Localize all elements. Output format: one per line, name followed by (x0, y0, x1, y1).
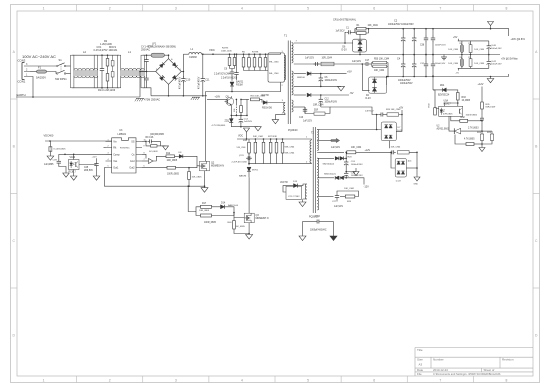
node aux m2 (236, 115, 238, 117)
wire capacitor C31b a (413, 55, 415, 63)
resistor snubber R7 (248, 58, 251, 68)
wire capacitor C5 b (402, 68, 404, 77)
svg-text:BAV2M: BAV2M (239, 174, 246, 177)
svg-text:2: 2 (109, 379, 111, 383)
wire capacitor C36 a (425, 29, 427, 37)
transistor Q5 (225, 98, 232, 105)
svg-text:14D431: 14D431 (109, 49, 118, 52)
node clamp2 R23 (270, 138, 272, 140)
resistor clamp2 R23 (269, 142, 272, 153)
capacitor C25 (94, 161, 98, 167)
wire clamp2 R25 t (282, 139, 284, 142)
wire d7 bottom (388, 141, 390, 149)
wire 5v flag tick (458, 39, 460, 41)
inductor LF1 (151, 53, 165, 57)
wire rc5 loop (305, 107, 314, 114)
transformer T2 sec3 (317, 158, 318, 178)
node R2b rail (368, 28, 370, 30)
resistor R2 (357, 32, 367, 35)
ground u5b (70, 176, 77, 180)
wire t2s pin11 (320, 129, 377, 131)
svg-text:D-2X: D-2X (396, 180, 402, 182)
wire CY1 top (146, 55, 148, 57)
wire C12 top (320, 95, 322, 97)
capacitor C14 (239, 117, 243, 123)
wire r40 dn (234, 229, 249, 234)
wire mid gnd (346, 168, 356, 172)
svg-text:B: B (13, 144, 16, 148)
T1 sec winding 2 (292, 71, 294, 95)
wire r16 d6 (260, 99, 263, 102)
svg-text:D: D (12, 333, 15, 337)
svg-text:4.7K,0805: 4.7K,0805 (464, 139, 475, 141)
wire t2 sec stubD (317, 196, 320, 198)
node r13 node (188, 167, 190, 169)
resistor clamp2 R22 (262, 142, 265, 153)
svg-text:L1: L1 (191, 48, 194, 51)
wire CY mid to earth (140, 72, 147, 98)
svg-text:C14: C14 (244, 118, 249, 120)
common-mode choke L2 (71, 55, 98, 88)
svg-text:10K_CM4: 10K_CM4 (368, 25, 379, 27)
capacitor C3 (401, 36, 405, 42)
resistor R24 R29 divider (480, 134, 493, 140)
node c40 mid (488, 54, 490, 56)
capacitor C13 (303, 107, 307, 113)
wire capacitor C37 b (425, 68, 427, 77)
wire tl431 k (449, 116, 454, 131)
transformer T2 sec4 (317, 179, 318, 197)
wire capacitor C31b b (413, 68, 415, 77)
wire ss gnd (160, 145, 165, 147)
node d2 out (386, 76, 388, 78)
resistor R50 R51 pair (372, 61, 389, 67)
wire ref2 (474, 143, 482, 145)
wire u5b gnd (73, 170, 75, 177)
wire aux right (246, 99, 248, 115)
svg-text:BZV55C24: BZV55C24 (438, 94, 450, 96)
wire low bus (387, 74, 509, 77)
svg-text:LM5021: LM5021 (118, 133, 127, 136)
node gnd flag (490, 28, 492, 30)
wire clamp R4 top (229, 54, 231, 57)
svg-text:51K: 51K (234, 108, 236, 112)
svg-text:CY3: CY3 (315, 215, 320, 218)
node vdc400 (49, 140, 51, 142)
transformer T1 aux winding (284, 103, 285, 113)
node clamp R5 (234, 53, 236, 55)
wire comp link (59, 153, 65, 155)
wire ss (142, 140, 146, 142)
svg-text:1000pF,400VAC: 1000pF,400VAC (310, 229, 327, 232)
node out1 turn (187, 185, 189, 187)
wire d14 out (225, 207, 234, 213)
node d6 bus (359, 54, 361, 56)
svg-text:100R_0805: 100R_0805 (167, 174, 180, 176)
svg-text:D14: D14 (221, 202, 226, 204)
wire 5v low tick (458, 68, 460, 70)
wire bridge AC top (168, 55, 170, 59)
svg-text:+16V: +16V (215, 96, 221, 99)
svg-text:+12V: +12V (92, 157, 98, 159)
node q3 src (248, 233, 250, 235)
resistor R22 (321, 62, 334, 66)
svg-text:A: A (13, 50, 16, 54)
capacitor C34 (379, 113, 385, 117)
svg-text:T1: T1 (284, 34, 288, 38)
wire d18 out (344, 152, 346, 158)
svg-text:R4: R4 (460, 43, 462, 45)
svg-text:C17: C17 (365, 60, 370, 62)
svg-text:VDC: VDC (209, 48, 215, 52)
wire u5b right (79, 164, 97, 166)
svg-text:Revision: Revision (502, 358, 514, 362)
svg-text:R14 1.2M,1206: R14 1.2M,1206 (98, 89, 116, 92)
node C8 (236, 53, 238, 55)
wire clamp2 bus (249, 163, 308, 165)
T1 sec winding 3 (292, 100, 294, 112)
node c24 (345, 158, 347, 160)
svg-text:10R_0805: 10R_0805 (167, 160, 178, 162)
resistor R3 (106, 74, 109, 82)
resistor R30 (434, 108, 437, 115)
ground t2s (353, 172, 359, 176)
svg-text:L2: L2 (83, 50, 86, 54)
wire r35 dn (481, 109, 483, 116)
svg-text:4: 4 (241, 379, 243, 383)
wire sec 5 (294, 106, 305, 108)
resistor clamp R4 (228, 58, 231, 66)
svg-text:SB2100(x2): SB2100(x2) (324, 173, 336, 175)
wire AC bottom rail (72, 87, 119, 89)
svg-text:4: 4 (241, 7, 243, 11)
node c34 (376, 114, 378, 116)
svg-text:VDC400: VDC400 (44, 134, 54, 138)
transistor Q5 circle (226, 98, 234, 106)
transformer T2 primary (310, 140, 311, 163)
wire R2 out (366, 29, 369, 33)
wire sec top (294, 42, 353, 44)
node q2 src (204, 185, 206, 187)
node d4 in (390, 152, 392, 154)
wire clamp2 R21 b (254, 153, 256, 164)
wire N in (30, 71, 37, 73)
node grid m1 (461, 54, 463, 56)
wire snub R9 t (259, 54, 261, 57)
resistor R40 (233, 221, 236, 230)
wire t1 low ext (330, 107, 379, 115)
svg-text:2.2nF,1KV,1206: 2.2nF,1KV,1206 (221, 78, 238, 80)
node opto top (457, 102, 459, 104)
svg-text:C2: C2 (394, 19, 398, 22)
node capacitor C31b low (413, 76, 415, 78)
svg-text:2: 2 (282, 85, 284, 87)
resistor snubber R10 (264, 58, 267, 68)
capacitor C31b (412, 62, 416, 68)
wire capacitor C30 a (413, 29, 415, 37)
wire r13 out2 (189, 166, 197, 168)
svg-text:RS1M D6: RS1M D6 (262, 108, 273, 110)
resistor R13 (167, 166, 176, 169)
wire r12 out (175, 155, 179, 157)
resistor R12 (166, 155, 175, 158)
node C12 tap (320, 94, 322, 96)
svg-text:1nF/50V: 1nF/50V (244, 121, 253, 123)
svg-text:C21 CY36V: C21 CY36V (288, 196, 300, 198)
svg-text:5A/250V: 5A/250V (36, 75, 46, 79)
wire d2 out (386, 77, 388, 86)
node CY earth tap (139, 71, 141, 73)
wire r37 out (212, 213, 235, 216)
svg-text:R6: R6 (242, 51, 246, 53)
transformer T1 core (288, 41, 290, 125)
svg-text:C24: C24 (351, 161, 356, 163)
svg-text:(C31: (C31 (239, 155, 245, 157)
svg-text:51K_CM4: 51K_CM4 (237, 147, 247, 149)
wire t2 sec stubC (317, 177, 320, 179)
capacitor C42 (487, 59, 491, 65)
node capacitor C36 (425, 28, 427, 30)
buffer gate drive (149, 159, 154, 164)
wire capacitor C48 b (432, 68, 434, 77)
svg-text:C1: C1 (346, 28, 350, 30)
svg-text:R7: R7 (468, 43, 470, 45)
svg-text:1uF,SCV: 1uF,SCV (365, 111, 374, 113)
resistor snubber R6 (242, 58, 245, 68)
wire t2 p2 (308, 162, 311, 165)
wire d2 left drop (362, 64, 369, 90)
wire fb drop (432, 76, 434, 90)
svg-text:2: 2 (108, 146, 109, 148)
capacitor C40 (487, 44, 491, 50)
svg-text:GND: GND (414, 184, 419, 186)
wire rIt stub (104, 147, 106, 149)
capacitor C47 (431, 36, 435, 42)
transformer T1 primary box (268, 53, 284, 82)
svg-text:PC817: PC817 (69, 171, 77, 174)
wire sec 3 (294, 73, 306, 75)
svg-text:47R,0805: 47R,0805 (443, 113, 453, 115)
node C10 junction (183, 71, 185, 73)
wire r31 loop (340, 196, 345, 198)
wire bridge AC left (140, 71, 156, 73)
svg-text:9HL_CM4: 9HL_CM4 (269, 61, 279, 63)
svg-text:Vin: Vin (113, 140, 117, 143)
wire snub R7 t (248, 54, 250, 57)
node clamp2 R21 (255, 138, 257, 140)
svg-text:(D4: (D4 (408, 161, 412, 163)
wire aux d13 (298, 184, 307, 186)
svg-text:4.7V/1W,0805: 4.7V/1W,0805 (212, 125, 227, 127)
wire snub R10 b (265, 67, 267, 71)
resistor snubber R8 (253, 58, 256, 68)
svg-text:C12: C12 (325, 99, 330, 101)
diode D12 (247, 167, 251, 171)
svg-text:R1: R1 (357, 25, 361, 27)
wire 5v top bus (458, 40, 489, 42)
node C11 top (202, 53, 204, 55)
svg-text:R6: R6 (460, 57, 462, 59)
svg-text:ET-TL2N99A(KH GB/OEM): ET-TL2N99A(KH GB/OEM) (148, 46, 176, 49)
wire capacitor C47 b (432, 42, 434, 55)
transformer T2 aux (305, 184, 307, 199)
node t2s n1 (345, 152, 347, 154)
wire t2s top (320, 140, 331, 142)
wire R1 out (366, 29, 509, 36)
node u5b (73, 154, 75, 156)
wire CX1 top (101, 55, 103, 66)
common-mode choke L1 (117, 55, 144, 88)
diode D10 (307, 72, 311, 76)
wire out1 route b (188, 186, 196, 211)
wire R2 top (107, 55, 109, 58)
svg-text:-5V: -5V (350, 91, 354, 95)
optocoupler U5B (69, 160, 80, 170)
svg-text:C: C (12, 239, 15, 243)
svg-text:Title: Title (417, 348, 423, 352)
wire w4 out (346, 178, 364, 185)
wire q2 src (204, 171, 206, 186)
wire c17 to pair (370, 63, 372, 65)
node CX1 top (101, 54, 103, 56)
wire capacitor C47 a (432, 29, 434, 37)
wire pair to lowbus (387, 63, 389, 77)
node ss (145, 141, 147, 143)
wire r14 a (188, 168, 190, 172)
svg-text:VACTR: VACTR (261, 94, 269, 97)
wire c24 top (345, 158, 347, 160)
wire clamp2 R25 b (282, 153, 284, 164)
svg-text:1000uF/50V: 1000uF/50V (398, 80, 411, 82)
svg-text:10K_CM4: 10K_CM4 (351, 147, 362, 149)
diode D3 (230, 82, 234, 86)
svg-text:C4: C4 (397, 57, 401, 60)
wire T1 primary return (206, 82, 281, 91)
ground cy3 right earth (330, 236, 337, 241)
wire DC minus bus (151, 95, 207, 97)
svg-text:9: 9 (144, 146, 145, 148)
svg-text:6: 6 (373, 379, 375, 383)
svg-text:1000uF/16V: 1000uF/16V (325, 102, 338, 104)
resistor R4b (469, 45, 472, 53)
node R2 top (107, 54, 109, 56)
svg-text:SB5100: SB5100 (297, 77, 306, 79)
node VDC (212, 53, 214, 55)
node tl431 a (481, 130, 483, 132)
wire c25 up (96, 158, 98, 161)
node grid m2 (470, 54, 472, 56)
svg-text:+5V: +5V (347, 69, 352, 73)
node R3 bottom (107, 87, 109, 89)
transistor Q3 (244, 213, 254, 223)
wire D6 to bus (359, 52, 361, 55)
svg-text:1: 1 (180, 69, 182, 71)
resistor R37 (201, 214, 212, 217)
node CY1 top (146, 54, 148, 56)
svg-text:10K_CM4: 10K_CM4 (448, 63, 459, 65)
wire r11 top (235, 99, 237, 104)
op-amp U3 LM5021 body (112, 138, 136, 173)
diode D6 dual rectifier (353, 39, 367, 52)
svg-text:D13: D13 (293, 181, 298, 183)
wire out2 (142, 167, 167, 169)
resistor R35 (481, 102, 484, 109)
wire D3 to drain rail (231, 86, 233, 91)
svg-text:C9: C9 (224, 68, 228, 71)
wire div bot (482, 140, 492, 144)
svg-text:R40: R40 (228, 222, 233, 224)
wire capacitor C37 a (425, 55, 427, 63)
svg-text:Sheet of: Sheet of (484, 368, 495, 372)
wire AC bottom rail 2 (143, 88, 151, 96)
wire r6b t (470, 55, 472, 59)
wire EARTH rail (16, 96, 140, 98)
svg-text:A3: A3 (419, 363, 423, 367)
svg-text:10K_CM4: 10K_CM4 (448, 49, 459, 51)
wire r32 out (468, 120, 482, 122)
bridge rectifier D1 (156, 59, 182, 85)
node pair lowbus (387, 76, 389, 78)
resistor R17 (201, 205, 212, 208)
wire u5b top (73, 154, 75, 159)
wire zd2 b (230, 123, 232, 127)
ground c25 (93, 176, 100, 180)
wire D6 to T1 aux (267, 102, 285, 104)
capacitor C36 (424, 36, 428, 42)
svg-text:10K_0805: 10K_0805 (192, 177, 203, 179)
wire tl431 a (461, 130, 482, 132)
wire capacitor C36 b (425, 42, 427, 55)
svg-text:PQ26/20: PQ26/20 (288, 129, 298, 132)
ground d15 (47, 156, 54, 160)
ground q2 (201, 188, 208, 193)
wire sec to D6 (351, 42, 354, 44)
wire C12 dn (320, 103, 322, 107)
svg-text:82R,1/4W: 82R,1/4W (486, 107, 497, 109)
wire r30 top (435, 103, 439, 109)
ground earth AC (135, 99, 144, 102)
svg-text:1K,0805: 1K,0805 (462, 100, 471, 102)
wire clamp2 R23 b (270, 153, 272, 164)
svg-text:D-2X: D-2X (342, 50, 348, 52)
svg-text:1uF,0805: 1uF,0805 (44, 164, 54, 166)
wire clamp2 R20 t (248, 139, 250, 142)
ground flag top (488, 22, 494, 26)
wire center tap (294, 85, 341, 87)
wire 5v low bus (458, 67, 489, 69)
transformer T2 sec2 (317, 141, 318, 151)
svg-text:R23: R23 (348, 157, 353, 159)
wire C1 to R1 (352, 29, 356, 33)
wire d15 b (49, 151, 51, 156)
ground flag t2 (244, 128, 250, 132)
wire D6 top out (359, 34, 361, 39)
svg-text:+: + (171, 58, 173, 62)
node aux r (246, 115, 248, 117)
svg-text:1uF,SCV: 1uF,SCV (352, 61, 362, 63)
wire c24 dn (345, 166, 347, 172)
wire snub R7 b (248, 67, 250, 71)
wire c14 t (240, 115, 242, 117)
wire bus C10 b (182, 82, 184, 96)
resistor R28 (314, 112, 325, 115)
wire bus C11 (202, 54, 204, 77)
ground c20 (63, 173, 70, 177)
svg-text:D-2X: D-2X (366, 98, 372, 100)
shunt regulator U2 TL431 (454, 128, 460, 134)
ground sec (338, 86, 345, 91)
svg-text:2.2nF,1KV,CM4: 2.2nF,1KV,CM4 (232, 162, 248, 164)
